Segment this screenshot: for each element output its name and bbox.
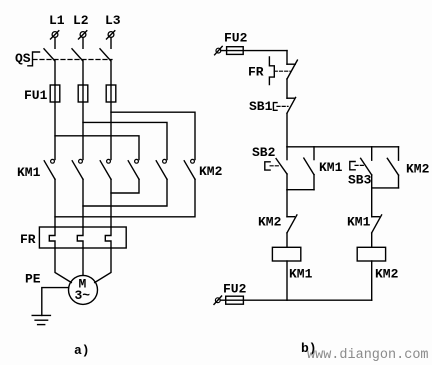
wire QS to FU1 pole 1 [54, 61, 56, 85]
svg-text:KM2: KM2 [375, 267, 399, 282]
pushbutton SB1 NC (stop) [287, 97, 296, 113]
QS blade pole 2 [72, 49, 83, 61]
wire branch L1 to KM2 pole 4 [55, 136, 139, 160]
wire L1 down to QS [54, 37, 56, 48]
SB2 linkage (dashed) [270, 165, 279, 167]
node L2 terminal [79, 31, 87, 39]
wire QS to FU1 pole 3 [110, 61, 112, 85]
contactor KM2 main contact 4 [128, 159, 139, 179]
wire coil KM1 to bottom rail [286, 261, 288, 300]
pushbutton SB2 NO (start fwd) [276, 147, 287, 174]
node L1 terminal [51, 31, 59, 39]
wire contact 6 join to pole 1 [55, 179, 195, 217]
ground symbol [32, 315, 50, 324]
contactor KM1 main contact 1 [44, 159, 55, 179]
wire rejoin SB2/KM1 [287, 189, 314, 191]
FR release bracket [269, 57, 274, 85]
wire down to FR contact [286, 51, 288, 65]
svg-text:KM2: KM2 [406, 162, 430, 177]
contactor KM1 main contact 3 [100, 159, 111, 179]
svg-text:L1: L1 [49, 13, 65, 28]
contactor KM1 interlock NC contact [372, 215, 382, 233]
svg-text:FU2: FU2 [223, 282, 247, 297]
FR heater element pole 2 [77, 227, 83, 248]
QS blade pole 1 [44, 49, 55, 61]
svg-text:KM1: KM1 [289, 267, 313, 282]
svg-text:SB2: SB2 [252, 145, 276, 160]
SB1 linkage (dashed) [277, 105, 288, 107]
disconnect switch QS bracket [28, 52, 40, 66]
wire branch L3 to KM2 pole 6 [111, 112, 195, 159]
wire FU2 top feed [221, 50, 287, 52]
motor M 3~ [69, 275, 98, 304]
svg-text:QS: QS [15, 51, 31, 66]
node L3 terminal [107, 31, 115, 39]
svg-text:KM1: KM1 [17, 165, 41, 180]
fuse FU1 pole 2 [78, 85, 88, 102]
wire SB2 lower [286, 174, 288, 190]
wire FU1 to KM1 contact pole 3 [110, 85, 112, 160]
wire contact 1 down to FR [54, 179, 56, 227]
contactor KM2 main contact 6 [184, 159, 195, 179]
svg-text:FU1: FU1 [24, 88, 48, 103]
svg-text:3~: 3~ [75, 288, 91, 303]
FR heater element pole 3 [105, 227, 111, 248]
svg-text:L2: L2 [73, 13, 89, 28]
wire bottom rail [220, 299, 372, 301]
SB2 button cap [265, 162, 270, 170]
wire FR to motor W [95, 248, 111, 283]
coil KM2 [357, 247, 385, 261]
svg-text:L3: L3 [105, 13, 121, 28]
wire FR to motor U [55, 248, 71, 283]
svg-text:FU2: FU2 [224, 31, 248, 46]
wire FU1 to KM1 contact pole 1 [54, 85, 56, 160]
pushbutton SB3 NO (start rev) [361, 147, 372, 175]
svg-text:www.diangon.com: www.diangon.com [307, 348, 429, 363]
svg-text:SB3: SB3 [348, 173, 372, 188]
thermal relay FR NC contact [287, 60, 297, 79]
svg-text:a): a) [74, 343, 90, 358]
contactor KM1 aux contact NO [304, 147, 314, 190]
fuse FU1 pole 3 [106, 85, 116, 102]
wire SB1 to rail [286, 114, 288, 147]
wire left branch down [286, 190, 288, 217]
contactor KM2 interlock NC contact [287, 215, 297, 233]
wire top rail of parallel branches [287, 146, 399, 148]
wire branch L2 to KM2 pole 5 [83, 122, 167, 159]
thermal relay FR box [39, 227, 126, 248]
wire contact 3 down to FR [110, 179, 112, 227]
svg-text:KM1: KM1 [319, 160, 343, 175]
wire to coil KM1 [286, 233, 288, 247]
wire FR to SB1 [286, 79, 288, 98]
contactor KM2 aux contact NO [387, 147, 398, 188]
fuse FU2 bottom [226, 296, 244, 304]
wire PE to motor frame [42, 288, 69, 316]
svg-text:SB1: SB1 [249, 99, 273, 114]
SB1 button cap [273, 103, 277, 111]
node FU2 bottom terminal [214, 296, 222, 304]
svg-text:PE: PE [25, 272, 41, 287]
node FU2 top terminal [215, 46, 223, 54]
contactor KM1 main contact 2 [72, 159, 83, 179]
fuse FU2 top [227, 47, 244, 55]
wire contact 4 join to pole 3 [111, 179, 139, 193]
SB3 linkage (dashed) [355, 164, 364, 166]
wire SB3 lower [371, 175, 373, 188]
svg-text:KM2: KM2 [199, 164, 223, 179]
disconnect switch QS linkage (dashed) [33, 59, 112, 61]
svg-text:FR: FR [20, 232, 36, 247]
wire coil KM2 to bottom rail [371, 261, 373, 300]
FR contact linkage (dashed) [274, 70, 290, 72]
wire contact 2 down to FR [82, 179, 84, 227]
wire right branch down [371, 188, 373, 217]
wire to coil KM2 [371, 233, 373, 247]
svg-text:FR: FR [248, 65, 264, 80]
contactor KM2 main contact 5 [156, 159, 167, 179]
wire rejoin SB3/KM2 [372, 187, 399, 189]
coil KM1 [272, 247, 300, 261]
svg-text:KM1: KM1 [347, 215, 371, 230]
QS blade pole 3 [100, 49, 111, 61]
svg-text:KM2: KM2 [258, 215, 282, 230]
wire FR to motor V [82, 248, 84, 275]
wire L3 down to QS [110, 37, 112, 48]
fuse FU1 pole 1 [50, 85, 60, 102]
wire QS to FU1 pole 2 [82, 61, 84, 85]
wire contact 5 join to pole 2 [83, 179, 167, 206]
FR heater element pole 1 [49, 227, 55, 248]
wire L2 down to QS [82, 37, 84, 48]
wire FU1 to KM1 contact pole 2 [82, 85, 84, 160]
SB3 button cap [350, 162, 355, 170]
